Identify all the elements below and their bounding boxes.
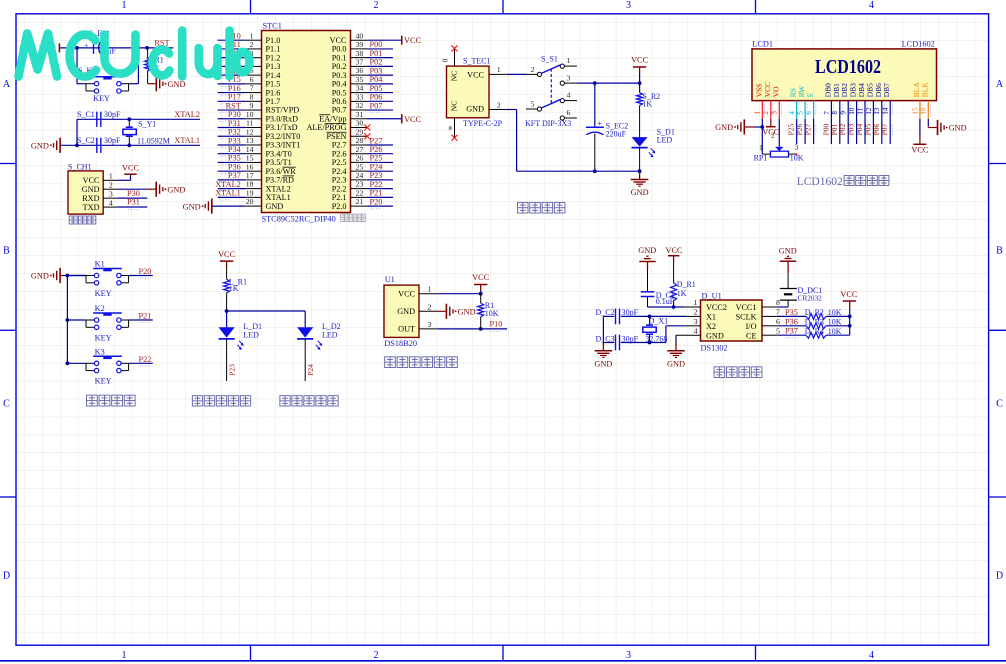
svg-text:S_Y1: S_Y1 — [138, 119, 156, 128]
label power circuit — [517, 202, 528, 213]
svg-text:KEY: KEY — [93, 94, 110, 103]
svg-text:VCC2: VCC2 — [706, 303, 727, 312]
resistor S_R2 — [639, 83, 641, 92]
wire pin40 to VCC — [368, 39, 402, 41]
svg-text:GND: GND — [715, 123, 733, 132]
svg-text:P32: P32 — [228, 128, 241, 137]
svg-text:11: 11 — [856, 107, 864, 114]
wire net P24 — [368, 170, 394, 172]
STC1 left pin 5 P1.4 — [246, 74, 262, 76]
svg-text:VCC: VCC — [122, 163, 140, 172]
wire net P35 — [218, 161, 246, 163]
svg-text:GND: GND — [594, 360, 612, 369]
wire net P32 — [218, 135, 246, 137]
svg-text:BLK: BLK — [920, 82, 929, 98]
svg-text:1K: 1K — [229, 284, 239, 293]
wire net P22 — [368, 188, 394, 190]
STC1 right pin 37 P0.2 — [351, 65, 368, 67]
svg-text:GND: GND — [779, 247, 797, 256]
wire net P27 — [368, 144, 394, 146]
wire VCC to RST node — [60, 47, 173, 49]
svg-text:5: 5 — [776, 326, 780, 335]
LCD pin 13 DB6 — [881, 101, 883, 119]
svg-text:GND: GND — [706, 331, 724, 340]
svg-text:7: 7 — [776, 308, 780, 317]
wire LCD pin 11 — [864, 119, 866, 144]
svg-text:P35: P35 — [228, 154, 241, 163]
svg-text:P3.7/RD: P3.7/RD — [266, 176, 295, 185]
svg-text:OUT: OUT — [398, 325, 415, 334]
svg-text:P2.2: P2.2 — [332, 184, 347, 193]
svg-text:1: 1 — [122, 650, 127, 661]
svg-text:P07: P07 — [880, 123, 889, 135]
ground (crystal) — [59, 138, 61, 153]
svg-text:P31: P31 — [127, 198, 140, 207]
svg-text:3: 3 — [626, 650, 631, 661]
svg-text:10: 10 — [246, 110, 254, 119]
svg-text:9: 9 — [250, 101, 254, 110]
LED S_D1 — [632, 137, 648, 147]
svg-text:3: 3 — [109, 189, 113, 198]
wire left leg — [76, 119, 78, 145]
svg-text:VCC: VCC — [330, 36, 347, 45]
label clock module — [714, 367, 725, 378]
svg-text:8: 8 — [250, 92, 254, 101]
svg-text:P03: P03 — [370, 66, 383, 75]
wire net P23 — [368, 179, 394, 181]
MCU chinese note — [341, 214, 348, 221]
svg-text:P1.4: P1.4 — [266, 71, 281, 80]
svg-text:P31: P31 — [228, 119, 241, 128]
svg-text:LED: LED — [657, 135, 673, 144]
ground (power circuit) — [639, 171, 641, 179]
svg-text:2: 2 — [250, 40, 254, 49]
resistor L_R1 — [224, 279, 230, 293]
wire net P36 — [218, 170, 246, 172]
svg-text:VCC: VCC — [83, 176, 100, 185]
STC1 right pin 24 P2.3 — [351, 179, 368, 181]
svg-text:GND: GND — [667, 360, 685, 369]
wire net P06 — [368, 100, 394, 102]
wire net P37 — [218, 179, 246, 181]
svg-text:7: 7 — [250, 84, 254, 93]
svg-text:2: 2 — [497, 100, 501, 109]
svg-text:P1.3: P1.3 — [266, 62, 281, 71]
wire net P17 — [218, 100, 246, 102]
junction — [760, 125, 764, 129]
ground (STC1 pin20) — [211, 198, 213, 213]
wire net P11 — [218, 48, 246, 50]
svg-text:5: 5 — [531, 100, 535, 109]
wire net P03 — [368, 74, 394, 76]
wire pin8 — [777, 306, 788, 308]
svg-text:2: 2 — [428, 302, 432, 311]
label red indicator — [192, 396, 202, 406]
svg-text:P23: P23 — [370, 171, 383, 180]
svg-text:P0.5: P0.5 — [332, 88, 347, 97]
junction — [75, 46, 79, 50]
svg-text:GND: GND — [167, 185, 185, 194]
svg-text:D_R1: D_R1 — [677, 280, 696, 289]
svg-text:10K: 10K — [485, 309, 499, 318]
LCD pin 7 DB0 — [830, 101, 832, 119]
svg-text:GND: GND — [631, 188, 649, 197]
STC1 left pin 19 XTAL1 — [246, 196, 262, 198]
svg-text:ALE/PROG: ALE/PROG — [306, 123, 346, 132]
svg-text:1K: 1K — [677, 289, 687, 298]
wire VCC to resistor — [226, 268, 228, 280]
svg-text:NC: NC — [450, 101, 459, 111]
junction — [145, 46, 149, 50]
svg-text:6: 6 — [776, 317, 780, 326]
ground (S_CH1) — [148, 188, 157, 190]
svg-text:D: D — [3, 571, 10, 582]
STC1 right pin 38 P0.1 — [351, 57, 368, 59]
capacitor S_C1 — [96, 112, 98, 127]
wire net P21 — [368, 196, 394, 198]
svg-text:VCC: VCC — [467, 70, 484, 79]
wire TEC1 pin2 to GND rail — [506, 109, 516, 111]
ground (LCD BLK) — [937, 120, 939, 135]
svg-text:4: 4 — [109, 198, 113, 207]
svg-text:32: 32 — [356, 101, 364, 110]
svg-text:6: 6 — [567, 108, 571, 117]
svg-text:P36: P36 — [228, 162, 241, 171]
svg-text:VO: VO — [771, 86, 780, 97]
svg-text:8: 8 — [776, 298, 780, 307]
svg-text:CR2032: CR2032 — [798, 293, 823, 302]
ground (keys) — [59, 268, 61, 283]
svg-text:DS1302: DS1302 — [701, 344, 728, 353]
svg-text:VCC: VCC — [398, 290, 415, 299]
crystal S_Y1 — [128, 119, 130, 127]
svg-text:VCC: VCC — [472, 273, 490, 282]
svg-text:12: 12 — [865, 107, 873, 115]
svg-text:VCC: VCC — [911, 145, 929, 154]
svg-text:A: A — [996, 79, 1004, 90]
label download port — [69, 216, 77, 224]
wire pin20 to GND — [212, 205, 246, 207]
svg-text:P0.0: P0.0 — [332, 45, 347, 54]
junction — [593, 81, 597, 85]
svg-text:4: 4 — [567, 91, 571, 100]
switch S_S1 pole pin 5 — [526, 108, 537, 110]
LCD pin 5 RW — [804, 101, 806, 119]
STC1 right pin 25 P2.4 — [351, 170, 368, 172]
wire to key K1 — [67, 275, 86, 277]
svg-text:VCC: VCC — [404, 115, 422, 124]
STC1 left pin 14 P3.4/T0 — [246, 153, 262, 155]
wire pin4 to gnd — [675, 335, 677, 342]
wire net P33 — [218, 144, 246, 146]
connector S_TEC1 body — [447, 66, 490, 118]
svg-text:1: 1 — [250, 31, 254, 40]
svg-text:1K: 1K — [642, 100, 652, 109]
wire to key left — [76, 48, 78, 84]
svg-text:VCC: VCC — [631, 56, 649, 65]
wire to key K2 — [67, 319, 86, 321]
S_TEC1 pin 2 — [489, 109, 506, 111]
svg-text:1: 1 — [428, 285, 432, 294]
svg-text:S_C1: S_C1 — [77, 110, 95, 119]
svg-text:XTAL1: XTAL1 — [266, 193, 291, 202]
wire P36 — [777, 325, 806, 327]
wire LCD pin 5 — [804, 119, 806, 144]
svg-text:C: C — [3, 399, 10, 410]
svg-text:15: 15 — [911, 107, 919, 115]
svg-text:P2.5: P2.5 — [332, 158, 347, 167]
wire net P34 — [218, 153, 246, 155]
battery D_DC1 — [787, 300, 789, 307]
ground (DS1302 pin4) — [675, 343, 677, 351]
svg-text:P25: P25 — [370, 154, 383, 163]
svg-text:XTAL1: XTAL1 — [174, 136, 200, 145]
svg-text:PSEN: PSEN — [326, 132, 346, 141]
LCD pin 16 BLK — [927, 101, 929, 119]
wire net P00 — [368, 48, 394, 50]
svg-text:X2: X2 — [706, 322, 716, 331]
svg-text:P22: P22 — [370, 180, 383, 189]
wire D_C3 left — [603, 342, 614, 344]
svg-text:P23: P23 — [228, 364, 237, 376]
wire net P07 — [368, 109, 394, 111]
wire branch — [227, 310, 306, 312]
STC1 left pin 20 GND — [246, 205, 262, 207]
svg-text:P20: P20 — [139, 267, 152, 276]
svg-text:P26: P26 — [370, 145, 383, 154]
svg-text:19: 19 — [246, 188, 254, 197]
junction — [75, 143, 79, 147]
junction — [479, 292, 483, 296]
STC1 right pin 39 P0.0 — [351, 48, 368, 50]
svg-text:S_S1: S_S1 — [541, 54, 558, 63]
svg-text:25: 25 — [356, 162, 364, 171]
wire L_D1 to P23 — [226, 339, 228, 381]
wire pin31 to VCC — [368, 118, 402, 120]
svg-text:3: 3 — [626, 0, 631, 11]
svg-text:P36: P36 — [785, 317, 798, 326]
svg-text:A: A — [3, 79, 11, 90]
svg-text:16: 16 — [920, 107, 928, 115]
svg-text:D_X1: D_X1 — [649, 317, 669, 326]
STC1 right pin 29 PSEN — [351, 135, 368, 137]
resistor R1 — [480, 294, 482, 303]
svg-text:30pF: 30pF — [622, 308, 639, 317]
svg-text:P37: P37 — [228, 171, 241, 180]
svg-text:LED: LED — [322, 330, 338, 339]
svg-text:B: B — [3, 246, 10, 257]
LCD pin 3 VO — [778, 101, 780, 119]
STC1 left pin 17 P3.7/RD — [246, 179, 262, 181]
svg-text:P24: P24 — [370, 162, 384, 171]
wire gnd to D_C1 — [647, 270, 649, 292]
wire to DS1302 pin1 — [648, 306, 685, 308]
svg-text:13: 13 — [873, 107, 881, 115]
wire net P04 — [368, 83, 394, 85]
wire resistor to node — [226, 293, 228, 311]
svg-text:14: 14 — [246, 145, 254, 154]
wire net P31 — [218, 127, 246, 129]
svg-text:GND: GND — [949, 124, 967, 133]
wire pin1 to VCC — [118, 179, 131, 181]
resistor D_R1 — [673, 262, 675, 283]
svg-text:P27: P27 — [370, 136, 383, 145]
wire net P01 — [368, 57, 394, 59]
wire K1 to P20 — [129, 275, 153, 277]
svg-text:EA/Vpp: EA/Vpp — [319, 114, 346, 123]
svg-text:C: C — [996, 399, 1003, 410]
svg-text:P3.3/INT1: P3.3/INT1 — [266, 141, 301, 150]
wire net P25 — [368, 161, 394, 163]
svg-text:33: 33 — [356, 92, 364, 101]
wire key right to RST node — [129, 83, 139, 85]
svg-text:NC: NC — [450, 71, 459, 81]
svg-text:30pF: 30pF — [104, 110, 121, 119]
junction — [127, 117, 131, 121]
DS1302 pin2 line — [686, 315, 701, 317]
svg-text:VCC1: VCC1 — [736, 303, 757, 312]
junction — [638, 81, 642, 85]
svg-text:0: 0 — [442, 58, 450, 62]
junction — [593, 169, 597, 173]
svg-text:P00: P00 — [370, 40, 383, 49]
svg-text:P2.6: P2.6 — [332, 149, 347, 158]
wire net P30 — [218, 118, 246, 120]
STC1 left pin 10 P3.0/RxD — [246, 118, 262, 120]
svg-text:4: 4 — [694, 326, 698, 335]
svg-text:P1.5: P1.5 — [266, 80, 281, 89]
switch S_S1 link dashed — [550, 69, 552, 104]
svg-text:D_R2: D_R2 — [805, 308, 824, 317]
svg-text:XTAL1: XTAL1 — [215, 189, 241, 198]
svg-text:26: 26 — [356, 154, 364, 163]
svg-text:XTAL2: XTAL2 — [215, 180, 241, 189]
wire K2 to P21 — [129, 319, 153, 321]
svg-text:TYPE-C-2P: TYPE-C-2P — [463, 119, 503, 128]
STC1 right pin 36 P0.3 — [351, 74, 368, 76]
resistor S_R1 — [147, 48, 149, 58]
LED L_D2 — [297, 327, 313, 337]
STC1 left pin 1 P1.0 — [246, 39, 262, 41]
svg-text:E: E — [806, 92, 815, 97]
svg-text:5: 5 — [797, 111, 805, 115]
svg-text:P37: P37 — [785, 327, 798, 336]
svg-text:P3.5/T1: P3.5/T1 — [266, 158, 292, 167]
S_TEC1 pin 1 — [489, 73, 506, 75]
svg-text:P16: P16 — [228, 84, 241, 93]
svg-text:VCC: VCC — [218, 250, 236, 259]
svg-text:P2.1: P2.1 — [332, 193, 347, 202]
svg-text:P3.6/WR: P3.6/WR — [266, 167, 297, 176]
svg-text:GND: GND — [638, 246, 656, 255]
DS1302 pin3 line — [686, 325, 701, 327]
svg-text:P3.2/INT0: P3.2/INT0 — [266, 132, 301, 141]
svg-text:37: 37 — [356, 57, 364, 66]
switch S_S1 throw pin 4 — [560, 99, 564, 103]
STC1 left pin 7 P1.6 — [246, 92, 262, 94]
svg-text:220uF: 220uF — [606, 130, 627, 139]
wire TEC1 pin1 to switch — [506, 73, 526, 75]
STC1 left pin 15 P3.5/T1 — [246, 161, 262, 163]
svg-text:S_CH1: S_CH1 — [68, 162, 92, 171]
LCD pin 8 DB1 — [839, 101, 841, 119]
STC1 left pin 9 RST/VPD — [246, 109, 262, 111]
wire D_C2 left — [603, 315, 614, 317]
svg-text:12: 12 — [246, 127, 254, 136]
LCD pin 6 E — [813, 101, 815, 119]
wire LCD pin 8 — [839, 119, 841, 144]
STC1 right pin 40 VCC — [351, 39, 368, 41]
wire net P15 — [218, 83, 246, 85]
switch S_S1 throw pin 6 — [560, 116, 564, 120]
resistor D_R3 — [806, 323, 826, 329]
svg-text:TXD: TXD — [83, 203, 100, 212]
switch S_S1 lever lower — [541, 99, 561, 108]
crystal D_X1 — [649, 316, 651, 324]
svg-text:8: 8 — [831, 111, 839, 115]
wire BLK to GND — [927, 119, 929, 126]
svg-text:6: 6 — [805, 111, 813, 115]
svg-text:RST: RST — [226, 101, 241, 110]
wire X2 — [666, 325, 686, 327]
label temperature module — [385, 357, 396, 368]
wire XTAL2 — [77, 118, 200, 120]
svg-text:30: 30 — [356, 119, 364, 128]
svg-text:P0.6: P0.6 — [332, 97, 347, 106]
svg-text:KEY: KEY — [95, 333, 112, 342]
STC1 right pin 32 P0.7 — [351, 109, 368, 111]
svg-text:10: 10 — [848, 107, 856, 115]
svg-text:KFT DIP-3X3: KFT DIP-3X3 — [525, 119, 571, 128]
svg-text:2: 2 — [374, 0, 379, 11]
svg-text:2: 2 — [762, 111, 770, 115]
wire pin3 — [118, 197, 147, 199]
wire switch pin3 to VCC node — [577, 82, 640, 84]
svg-text:GND: GND — [183, 202, 201, 211]
wire D_R2 to VCC rail — [826, 315, 850, 317]
svg-text:GND: GND — [168, 80, 186, 89]
svg-text:K2: K2 — [95, 304, 105, 313]
wire VSS down — [761, 119, 763, 154]
svg-text:38: 38 — [356, 49, 364, 58]
no connect pin29 — [364, 133, 370, 139]
svg-text:LCD1602: LCD1602 — [797, 176, 843, 188]
junction — [66, 361, 70, 365]
svg-text:I/O: I/O — [746, 322, 757, 331]
svg-text:GND: GND — [31, 272, 49, 281]
junction — [66, 318, 70, 322]
wire VO to wiper — [778, 119, 780, 147]
svg-text:18: 18 — [246, 180, 254, 189]
MCU STC1 body — [262, 31, 351, 213]
svg-text:9: 9 — [840, 111, 848, 115]
svg-text:2: 2 — [109, 180, 113, 189]
wire XTAL1 — [60, 144, 200, 146]
svg-text:K3: K3 — [95, 347, 105, 356]
svg-text:XTAL2: XTAL2 — [266, 184, 291, 193]
svg-text:GND: GND — [466, 105, 484, 114]
svg-text:30pF: 30pF — [622, 335, 639, 344]
STC1 left pin 3 P1.2 — [246, 57, 262, 59]
LCD pin 2 VCC — [770, 101, 772, 119]
svg-text:1: 1 — [122, 0, 127, 11]
svg-text:1: 1 — [109, 172, 113, 181]
svg-text:D_R3: D_R3 — [805, 317, 824, 326]
svg-text:11.0592M: 11.0592M — [137, 136, 170, 145]
wire net P14 — [218, 74, 246, 76]
svg-text:S_C2: S_C2 — [77, 136, 95, 145]
svg-text:U1: U1 — [385, 275, 395, 284]
